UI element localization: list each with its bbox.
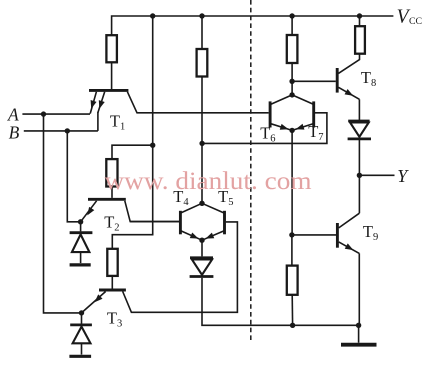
svg-text:VCC: VCC — [397, 6, 423, 27]
svg-text:T1: T1 — [110, 112, 125, 133]
svg-text:T8: T8 — [361, 68, 376, 89]
svg-text:www. dianlut. com: www. dianlut. com — [105, 168, 313, 195]
svg-text:A: A — [7, 104, 19, 124]
svg-text:B: B — [9, 123, 20, 143]
svg-text:T2: T2 — [104, 213, 119, 234]
svg-text:T9: T9 — [363, 222, 378, 243]
svg-text:T6: T6 — [260, 124, 275, 145]
svg-text:T3: T3 — [107, 309, 122, 330]
svg-text:Y: Y — [397, 166, 409, 186]
svg-text:T7: T7 — [308, 122, 323, 143]
